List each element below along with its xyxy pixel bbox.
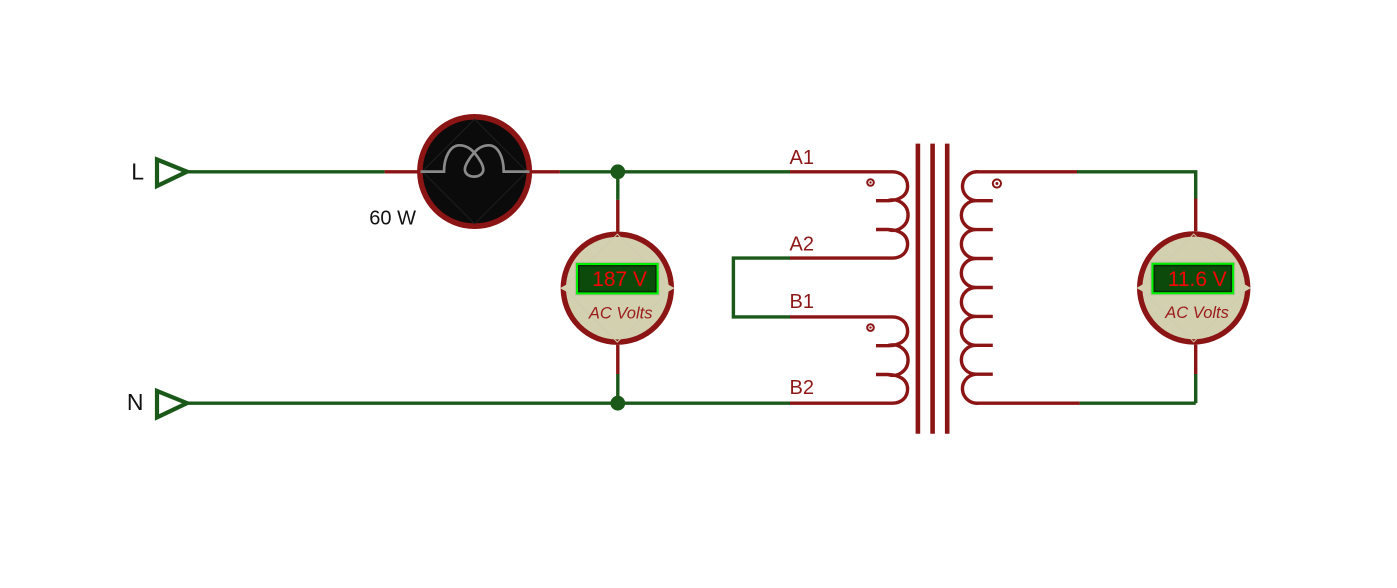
svg-text:B1: B1: [790, 291, 814, 313]
svg-text:B2: B2: [790, 377, 814, 399]
svg-text:AC Volts: AC Volts: [588, 304, 653, 322]
svg-text:N: N: [127, 389, 144, 415]
svg-text:L: L: [131, 159, 144, 185]
svg-text:A2: A2: [790, 233, 814, 255]
svg-text:11.6 V: 11.6 V: [1168, 268, 1227, 291]
svg-text:A1: A1: [790, 147, 814, 169]
svg-text:AC Volts: AC Volts: [1164, 304, 1229, 322]
svg-text:60 W: 60 W: [369, 208, 416, 230]
svg-text:187 V: 187 V: [592, 268, 647, 291]
